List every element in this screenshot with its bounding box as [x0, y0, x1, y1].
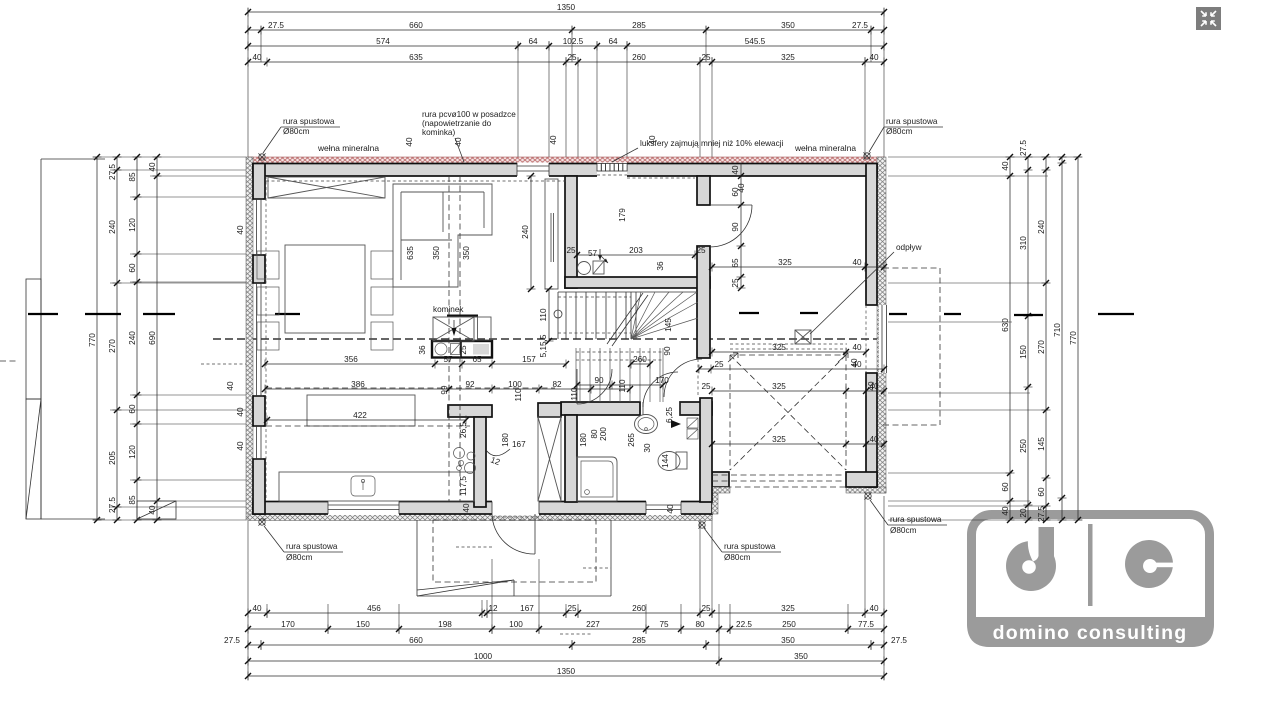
right dim col 40/630/60/40: [1001, 154, 1015, 523]
svg-text:40: 40: [731, 165, 740, 175]
label rura spustowa top-left: [263, 117, 340, 153]
interior wall hall east upper (W3): [697, 176, 710, 205]
interior vertical dim 60/90/65/25 east room door: [731, 163, 746, 291]
svg-text:40: 40: [252, 53, 262, 62]
svg-text:27.5: 27.5: [108, 497, 117, 513]
label 57 with arrow (utility): [588, 249, 608, 263]
svg-text:82: 82: [552, 380, 562, 389]
interior dim 422: [264, 411, 469, 425]
dashed ceiling lines living: [448, 176, 450, 501]
svg-text:25: 25: [696, 246, 706, 255]
svg-text:65: 65: [731, 258, 740, 268]
svg-text:12: 12: [488, 604, 498, 613]
bottom dim row 27.5/660/285/350/27.5: [224, 636, 907, 650]
section cut dashed line (full width): [213, 338, 877, 340]
svg-text:60: 60: [1037, 487, 1046, 497]
left wall windows (double glazing lines): [254, 199, 263, 255]
svg-text:26,5: 26,5: [459, 422, 468, 438]
terrace SE corner pier: [846, 472, 877, 487]
top dim row 27.5/660/285/350: [245, 21, 887, 35]
bottom dim row 1000/350: [245, 652, 887, 666]
svg-text:40: 40: [148, 162, 157, 172]
svg-text:270: 270: [1037, 340, 1046, 354]
interior dim 90/170: [574, 376, 669, 390]
left wall insulation band: [246, 157, 253, 520]
svg-text:rura spustowa: rura spustowa: [886, 117, 938, 126]
svg-text:36: 36: [656, 261, 665, 271]
svg-text:145: 145: [664, 318, 673, 332]
svg-text:rura pcvø100 w posadzce: rura pcvø100 w posadzce: [422, 110, 516, 119]
roof overhang dashed rect east: [883, 268, 940, 425]
svg-text:710: 710: [1053, 323, 1062, 337]
svg-text:145: 145: [1037, 437, 1046, 451]
bottom dimension extension lines: [248, 496, 884, 680]
terrace dashed boundary and cross: [730, 355, 846, 470]
interior dim 25 pair east: [696, 360, 887, 374]
svg-text:27.5: 27.5: [224, 636, 240, 645]
svg-text:22.5: 22.5: [736, 620, 752, 629]
svg-text:203: 203: [629, 246, 643, 255]
staircase walk line: [607, 293, 643, 344]
svg-text:27.5: 27.5: [268, 21, 284, 30]
svg-text:27.5: 27.5: [108, 164, 117, 180]
label luksfery: [612, 139, 784, 162]
svg-text:325: 325: [772, 343, 786, 352]
svg-text:690: 690: [148, 331, 157, 345]
svg-text:422: 422: [353, 411, 367, 420]
door hall to east room (bottom): [664, 359, 702, 397]
svg-text:kominka): kominka): [422, 128, 455, 137]
kitchen island: [307, 395, 415, 426]
counter behind fireplace: [432, 341, 492, 358]
bottom wall: [253, 502, 712, 515]
bottom dim row total 1350: [245, 667, 887, 681]
svg-text:120: 120: [128, 445, 137, 459]
axis marks right: [889, 313, 907, 315]
hall wardrobe with X: [538, 417, 561, 501]
svg-text:40: 40: [869, 604, 879, 613]
shower tray: [577, 457, 617, 501]
toilet: [658, 452, 687, 471]
porch small dashes: [456, 546, 494, 548]
svg-text:40: 40: [666, 504, 675, 514]
svg-text:150: 150: [1019, 345, 1028, 359]
svg-text:260: 260: [633, 355, 647, 364]
svg-text:Ø80cm: Ø80cm: [890, 526, 917, 535]
svg-text:25: 25: [701, 53, 711, 62]
porch slab: [417, 520, 611, 596]
bottom wall window 150: [328, 501, 399, 516]
svg-text:240: 240: [1037, 220, 1046, 234]
svg-text:Ø80cm: Ø80cm: [724, 553, 751, 562]
dining chairs: [257, 251, 393, 350]
svg-text:350: 350: [781, 636, 795, 645]
svg-text:110: 110: [570, 387, 579, 400]
svg-text:100: 100: [508, 380, 522, 389]
right dimension extension lines: [888, 157, 1082, 520]
left dim col 40/690/40: [148, 154, 162, 523]
scattered small dimension texts: [226, 135, 876, 514]
right dim col 710: [1053, 154, 1067, 523]
svg-text:545.5: 545.5: [745, 37, 766, 46]
svg-text:90: 90: [594, 376, 604, 385]
hall wardrobe pier (W11): [538, 403, 561, 417]
svg-text:rura spustowa: rura spustowa: [890, 515, 942, 524]
interior wall hall east mid (W4): [697, 246, 710, 358]
svg-text:285: 285: [632, 636, 646, 645]
svg-text:30: 30: [643, 443, 652, 453]
washbasin: [635, 415, 658, 434]
entry arrow: [671, 420, 681, 428]
logo rounded border: [972, 515, 1210, 643]
bathroom west wall (W9): [565, 415, 577, 502]
interior vertical dim 240 kitchen: [521, 173, 536, 292]
entrance door (bottom wall): [534, 514, 536, 554]
top-right compress icon: [1196, 7, 1221, 30]
right wall insulation band: [877, 157, 886, 493]
svg-text:660: 660: [409, 636, 423, 645]
bathroom door: [643, 372, 678, 407]
wardrobe with X top-left: [268, 177, 385, 198]
svg-text:64: 64: [528, 37, 538, 46]
interior dim 325/40 east room: [709, 258, 887, 272]
top wall window 64 (west): [517, 163, 549, 178]
svg-text:77.5: 77.5: [858, 620, 874, 629]
sofa: [393, 184, 492, 287]
dining table: [285, 245, 365, 333]
svg-text:85: 85: [128, 172, 137, 182]
svg-text:25: 25: [567, 604, 577, 613]
svg-text:27.5: 27.5: [1019, 140, 1028, 156]
svg-text:40: 40: [549, 135, 558, 145]
door kitchen passage: [576, 369, 578, 404]
svg-text:Ø80cm: Ø80cm: [283, 127, 310, 136]
interior vertical dim 110 stairs: [539, 286, 554, 344]
svg-text:250: 250: [782, 620, 796, 629]
svg-text:227: 227: [586, 620, 600, 629]
svg-text:325: 325: [781, 604, 795, 613]
sliding door dashes east room/terrace: [730, 343, 847, 345]
floor drain: [795, 330, 811, 344]
label rura spustowa bottom-left: [264, 526, 343, 562]
svg-text:27.5: 27.5: [1037, 506, 1046, 522]
svg-text:99: 99: [440, 385, 449, 395]
svg-text:25: 25: [566, 246, 576, 255]
svg-text:57: 57: [588, 249, 598, 258]
svg-text:40: 40: [852, 343, 862, 352]
svg-text:40: 40: [226, 381, 235, 391]
svg-text:60: 60: [1001, 482, 1010, 492]
svg-text:75: 75: [659, 620, 669, 629]
interior dim 325/40 mid: [701, 382, 887, 396]
interior dim row 386/92/100/82: [262, 380, 633, 394]
svg-text:25: 25: [714, 360, 724, 369]
svg-text:40: 40: [236, 225, 245, 235]
svg-text:325: 325: [778, 258, 792, 267]
svg-text:27.5: 27.5: [852, 21, 868, 30]
svg-text:25: 25: [701, 604, 711, 613]
svg-text:25: 25: [567, 53, 577, 62]
svg-text:117,5: 117,5: [459, 476, 468, 496]
svg-text:rura spustowa: rura spustowa: [724, 542, 776, 551]
top wall: [253, 164, 877, 177]
kitchen hob burners: [454, 448, 476, 474]
interior dim 325/40 low: [709, 435, 887, 449]
fireplace air arrow: [453, 320, 455, 331]
left wall piers: [253, 164, 265, 200]
svg-text:574: 574: [376, 37, 390, 46]
label rura pcv: [422, 110, 516, 162]
svg-text:64: 64: [608, 37, 618, 46]
svg-text:wełna mineralna: wełna mineralna: [317, 143, 379, 153]
svg-text:179: 179: [618, 208, 627, 222]
right dim col 770: [1069, 154, 1083, 523]
svg-text:630: 630: [1001, 318, 1010, 332]
svg-text:40: 40: [236, 407, 245, 417]
svg-text:144: 144: [661, 454, 670, 468]
interior wall kitchen cap (W5): [448, 405, 492, 417]
svg-text:770: 770: [1069, 331, 1078, 345]
svg-text:167: 167: [512, 440, 526, 449]
kitchen sink: [351, 476, 375, 496]
logo separator bar: [1088, 524, 1093, 606]
svg-text:635: 635: [406, 246, 415, 260]
right wall terrace window: [879, 305, 888, 373]
svg-text:170: 170: [281, 620, 295, 629]
bathroom north wall (W8): [561, 402, 640, 415]
svg-text:25: 25: [731, 278, 740, 288]
svg-text:80: 80: [590, 429, 599, 439]
svg-text:325: 325: [772, 382, 786, 391]
svg-text:57: 57: [443, 355, 453, 364]
terrace SW pier: [712, 472, 729, 487]
left dim col 770: [88, 154, 102, 523]
svg-text:1350: 1350: [557, 667, 576, 676]
svg-text:170: 170: [655, 376, 669, 385]
svg-text:350: 350: [781, 21, 795, 30]
svg-text:110: 110: [618, 379, 627, 392]
outside step SW: [137, 501, 176, 519]
svg-text:356: 356: [344, 355, 358, 364]
radiator squares: [687, 418, 698, 439]
left dim col 27.5/240/270/205/27.5: [108, 154, 122, 523]
bathroom east wall (W10): [700, 398, 712, 502]
svg-text:456: 456: [367, 604, 381, 613]
staircase lower flight: [576, 348, 663, 402]
washing machine: [578, 262, 591, 275]
svg-text:350: 350: [794, 652, 808, 661]
svg-text:350: 350: [462, 246, 471, 260]
svg-text:285: 285: [632, 21, 646, 30]
axis marks left: [28, 313, 58, 315]
dryer box: [593, 261, 604, 274]
svg-text:(napowietrzanie do: (napowietrzanie do: [422, 119, 492, 128]
svg-text:180: 180: [579, 433, 588, 447]
bottom wall insulation band: [248, 514, 712, 521]
svg-text:60: 60: [128, 263, 137, 273]
axis dashes east room: [739, 312, 759, 314]
label rura spustowa top-right: [869, 117, 943, 152]
interior dim 25/203/25 utility: [566, 246, 706, 260]
svg-text:260: 260: [632, 604, 646, 613]
kitchen tall cabinet: [545, 179, 558, 289]
left dimension extension lines: [93, 157, 246, 520]
svg-text:198: 198: [438, 620, 452, 629]
interior dim row 356/57/65/157: [262, 355, 569, 369]
top wall glass blocks (luksfery): [597, 163, 627, 178]
svg-text:kominek: kominek: [433, 305, 464, 314]
terrace corner insulation band: [846, 487, 886, 493]
slope arrows terrace: [838, 353, 848, 362]
top dim row 1350: [245, 3, 887, 17]
svg-text:635: 635: [409, 53, 423, 62]
svg-text:40: 40: [869, 435, 879, 444]
logo c glyph: [1125, 540, 1173, 588]
svg-text:325: 325: [781, 53, 795, 62]
svg-text:odpływ: odpływ: [896, 243, 922, 252]
svg-text:325: 325: [772, 435, 786, 444]
svg-text:Ø80cm: Ø80cm: [886, 127, 913, 136]
svg-text:20: 20: [1019, 508, 1028, 518]
svg-text:150: 150: [356, 620, 370, 629]
svg-text:120: 120: [128, 218, 137, 232]
interior wall kitchen spine (W6): [474, 417, 486, 507]
top wall insulation band (welna mineralna): [248, 157, 884, 164]
svg-text:40: 40: [737, 183, 746, 193]
svg-text:180: 180: [501, 433, 510, 447]
dash-dot mark far left: [0, 360, 16, 362]
svg-text:36: 36: [418, 345, 427, 355]
logo bottom band: [967, 617, 1214, 647]
svg-text:240: 240: [521, 225, 530, 239]
label kominek: [433, 305, 478, 316]
right dim col 27.5/310/150/250/20: [1019, 140, 1033, 523]
svg-text:65: 65: [472, 355, 482, 364]
svg-text:660: 660: [409, 21, 423, 30]
svg-text:25: 25: [701, 382, 711, 391]
left dim col 85/120/60/240/60/120/85: [128, 154, 142, 523]
svg-text:40: 40: [852, 258, 862, 267]
domino consulting logo: [967, 515, 1214, 648]
svg-text:40: 40: [869, 53, 879, 62]
right wall upper segment: [866, 164, 877, 306]
svg-text:92: 92: [465, 380, 475, 389]
bottom wall window 75 (near bathroom): [646, 501, 681, 516]
svg-text:6,25: 6,25: [665, 407, 674, 423]
svg-text:350: 350: [432, 246, 441, 260]
svg-text:27.5: 27.5: [891, 636, 907, 645]
svg-text:40: 40: [1001, 161, 1010, 171]
label rura spustowa bottom-center: [704, 528, 781, 562]
svg-text:Ø80cm: Ø80cm: [286, 553, 313, 562]
bottom wall entrance door gap: [492, 501, 539, 516]
svg-text:260: 260: [632, 53, 646, 62]
top dimension extension lines: [248, 8, 884, 160]
svg-text:110: 110: [539, 308, 548, 321]
svg-text:157: 157: [522, 355, 536, 364]
svg-text:110: 110: [514, 388, 523, 401]
entrance porch dashed canopy: [433, 520, 596, 582]
svg-text:85: 85: [128, 495, 137, 505]
svg-text:60: 60: [128, 404, 137, 414]
svg-text:770: 770: [88, 333, 97, 347]
svg-text:240: 240: [128, 331, 137, 345]
svg-text:40: 40: [462, 503, 471, 513]
svg-text:240: 240: [108, 220, 117, 234]
lower flight dashed edges: [576, 351, 663, 353]
door to east room (top): [710, 204, 752, 206]
interior dim 325/40 upper: [709, 343, 869, 357]
newel circle: [554, 310, 562, 318]
svg-text:102.5: 102.5: [563, 37, 584, 46]
svg-text:90: 90: [663, 346, 672, 356]
svg-text:80: 80: [695, 620, 705, 629]
svg-text:40: 40: [1001, 506, 1010, 516]
svg-text:rura spustowa: rura spustowa: [286, 542, 338, 551]
staircase winder treads: [631, 292, 698, 339]
svg-text:wełna mineralna: wełna mineralna: [794, 143, 856, 153]
svg-text:domino consulting: domino consulting: [993, 622, 1188, 644]
interior wall utility west (W1): [565, 176, 577, 288]
svg-text:270: 270: [108, 339, 117, 353]
bottom dim row 40/456/12/167/25/260/25/325/40: [245, 604, 887, 618]
svg-text:40: 40: [867, 381, 876, 391]
kitchen counter south: [279, 472, 474, 501]
svg-text:40: 40: [405, 137, 414, 147]
svg-text:luksfery zajmują mniej niż 10%: luksfery zajmują mniej niż 10% elewacji: [640, 139, 784, 148]
svg-text:386: 386: [351, 380, 365, 389]
terrace south edge dashes: [712, 474, 846, 476]
label 167 with curved leader: [486, 440, 526, 456]
right dim col 240/270/145/60: [1037, 154, 1051, 523]
neighbouring building outline left: [26, 159, 105, 519]
right wall lower segment: [866, 373, 877, 487]
svg-text:40: 40: [236, 441, 245, 451]
svg-text:rura spustowa: rura spustowa: [283, 117, 335, 126]
svg-text:40: 40: [252, 604, 262, 613]
svg-text:250: 250: [1019, 439, 1028, 453]
label rura spustowa bottom-right: [870, 500, 947, 535]
svg-text:205: 205: [108, 451, 117, 465]
label odplyw: [810, 243, 922, 334]
svg-text:40: 40: [850, 358, 859, 368]
interior wall utility south (W2): [565, 277, 710, 288]
interior dim 260: [628, 355, 653, 369]
bottom dim row 170/150/198/100/227/75/80/22.5/250/77.5: [245, 620, 887, 634]
svg-text:167: 167: [520, 604, 534, 613]
svg-text:265: 265: [627, 433, 636, 447]
svg-text:90: 90: [731, 222, 740, 232]
top dim row 40/635/25/260/25/325/40: [245, 53, 887, 67]
top dim row 574/64/102.5/64/545.5: [245, 37, 887, 51]
staircase upper flight: [558, 292, 698, 339]
svg-text:5,15,5: 5,15,5: [539, 334, 548, 357]
svg-text:200: 200: [599, 427, 608, 441]
svg-text:1000: 1000: [474, 652, 493, 661]
svg-text:310: 310: [1019, 236, 1028, 250]
svg-text:1350: 1350: [557, 3, 576, 12]
fireplace kominek: [433, 317, 491, 341]
logo d glyph: [1006, 541, 1056, 591]
svg-text:100: 100: [509, 620, 523, 629]
